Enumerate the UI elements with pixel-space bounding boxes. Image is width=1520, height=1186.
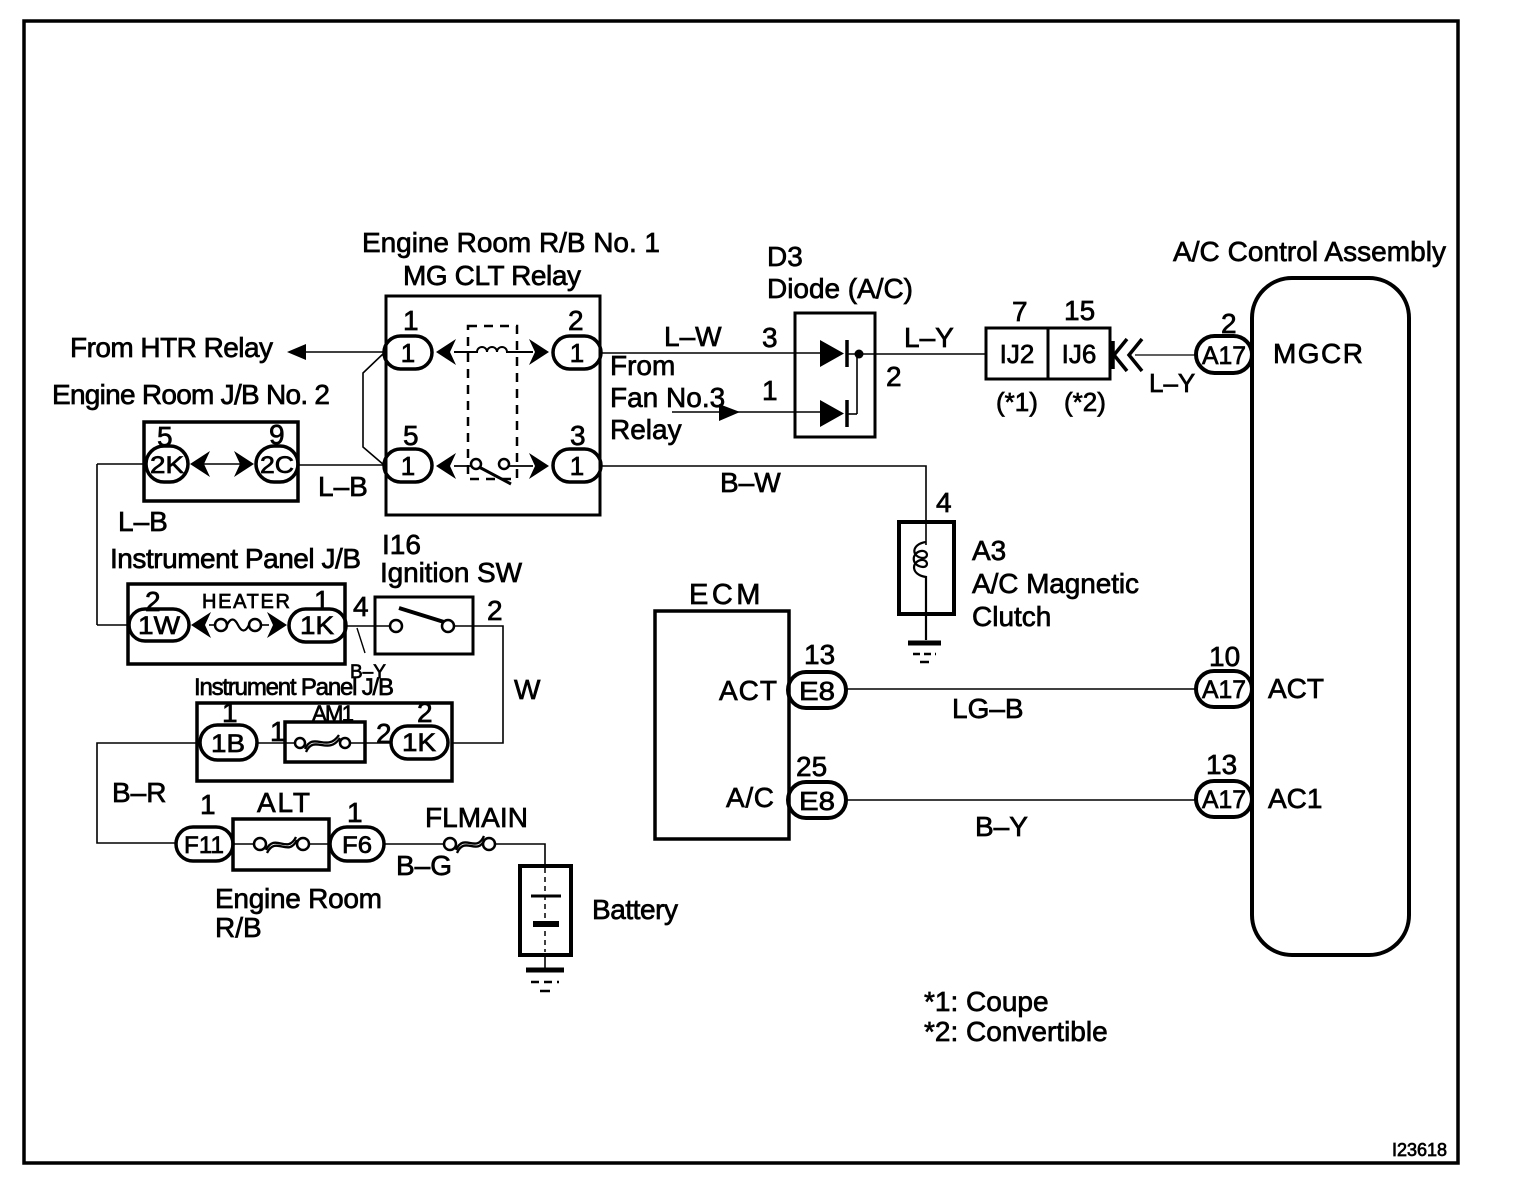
svg-text:MG CLT Relay: MG CLT Relay <box>403 260 581 291</box>
svg-text:7: 7 <box>1012 296 1028 327</box>
svg-text:MGCR: MGCR <box>1273 338 1363 369</box>
relay coil <box>454 347 533 352</box>
svg-text:4: 4 <box>353 591 369 622</box>
svg-text:13: 13 <box>1206 749 1237 780</box>
svg-text:Engine Room R/B No. 1: Engine Room R/B No. 1 <box>362 227 660 258</box>
svg-text:From: From <box>610 350 675 381</box>
svg-text:1: 1 <box>570 451 584 481</box>
svg-text:A17: A17 <box>1202 342 1246 370</box>
leader line to B-Y <box>357 628 365 653</box>
svg-text:*1: Coupe: *1: Coupe <box>924 986 1049 1017</box>
svg-text:F6: F6 <box>342 832 372 859</box>
svg-text:Relay: Relay <box>610 414 682 445</box>
svg-text:Ignition SW: Ignition SW <box>380 557 523 588</box>
svg-text:2: 2 <box>487 595 503 626</box>
junction box Engine Room J/B No.2 <box>144 422 298 501</box>
svg-text:LG–B: LG–B <box>952 693 1024 724</box>
wire L-Y diode to IJ2 <box>875 353 986 355</box>
svg-text:I16: I16 <box>382 529 421 560</box>
inline connector chevrons <box>1113 339 1142 371</box>
svg-text:D3: D3 <box>767 241 803 272</box>
svg-text:1: 1 <box>403 305 419 336</box>
svg-text:E8: E8 <box>799 676 835 706</box>
wire B-W relay pin3 to A3 <box>601 466 926 545</box>
junction box Instrument Panel J/B 2 <box>197 703 452 781</box>
svg-text:1: 1 <box>401 451 415 481</box>
svg-text:A17: A17 <box>1202 676 1246 704</box>
svg-text:L–Y: L–Y <box>904 322 954 353</box>
wire LG-B from E8 to A17 <box>846 688 1196 690</box>
svg-text:5: 5 <box>403 420 419 451</box>
svg-text:L–B: L–B <box>318 471 368 502</box>
svg-text:2K: 2K <box>150 452 184 479</box>
wire to HTR relay with arrow <box>287 344 384 360</box>
wire chevron to A17 <box>1135 354 1196 356</box>
ignition switch contacts <box>390 608 473 632</box>
svg-text:Diode (A/C): Diode (A/C) <box>767 273 913 304</box>
svg-text:1: 1 <box>401 338 415 368</box>
connector F6 oval <box>330 827 384 861</box>
svg-text:HEATER: HEATER <box>202 591 290 613</box>
arrowhead into 1K <box>267 612 287 638</box>
A3 coil <box>914 542 927 640</box>
svg-text:2: 2 <box>886 361 902 392</box>
svg-text:1B: 1B <box>211 730 245 758</box>
diode element top <box>820 340 875 367</box>
ground below battery <box>526 970 564 991</box>
svg-text:A/C: A/C <box>726 782 774 813</box>
wire L-B vertical <box>96 464 98 625</box>
connector E8 oval A/C <box>788 782 846 818</box>
arrowhead into 2K <box>190 451 210 477</box>
fuse AM1 element <box>295 735 391 752</box>
wire bracket joining relay pin1 and pin5 <box>363 353 384 465</box>
svg-text:*2: Convertible: *2: Convertible <box>924 1016 1108 1047</box>
svg-text:Fan No.3: Fan No.3 <box>610 382 725 413</box>
ignition switch box I16 <box>375 597 473 654</box>
wire W from ignition to 1K <box>452 626 503 743</box>
svg-text:B–G: B–G <box>396 850 452 881</box>
connector A17 oval ACT <box>1196 671 1252 707</box>
svg-text:Instrument Panel J/B: Instrument Panel J/B <box>110 543 361 574</box>
svg-text:Engine Room: Engine Room <box>215 883 382 914</box>
arrowhead into pin1 oval <box>436 339 456 365</box>
relay pin 1 oval <box>384 336 432 369</box>
svg-text:1: 1 <box>570 338 584 368</box>
relay box Engine Room R/B No.1 <box>386 296 600 515</box>
svg-text:A/C Control Assembly: A/C Control Assembly <box>1173 236 1446 267</box>
svg-text:(*2): (*2) <box>1064 387 1106 417</box>
svg-text:2C: 2C <box>260 452 294 479</box>
svg-text:Battery: Battery <box>592 894 678 925</box>
junction connector IJ2 IJ6 box <box>986 328 1110 379</box>
A/C control assembly box <box>1252 278 1409 955</box>
svg-text:W: W <box>514 674 541 705</box>
wire L-W relay pin2 to diode <box>601 352 820 354</box>
svg-text:L–Y: L–Y <box>1149 368 1195 398</box>
connector 2K oval <box>146 446 188 482</box>
svg-text:2: 2 <box>376 718 392 749</box>
wire 1B to AM1 <box>257 742 295 744</box>
svg-text:2: 2 <box>568 305 584 336</box>
relay coil dashed enclosure <box>468 326 517 479</box>
relay pin 3 oval <box>553 449 601 482</box>
svg-text:A/C Magnetic: A/C Magnetic <box>972 568 1139 599</box>
svg-text:From HTR Relay: From HTR Relay <box>70 332 273 363</box>
arrowhead into pin5 oval <box>436 453 456 479</box>
svg-text:ACT: ACT <box>719 675 777 706</box>
svg-text:2: 2 <box>417 697 433 728</box>
svg-text:1K: 1K <box>402 729 436 757</box>
svg-text:IJ6: IJ6 <box>1062 339 1097 369</box>
wire 2K to left vertical <box>97 463 146 465</box>
svg-text:ECM: ECM <box>689 579 764 611</box>
svg-text:1: 1 <box>762 375 778 406</box>
svg-text:15: 15 <box>1064 295 1095 326</box>
svg-text:IJ2: IJ2 <box>1000 339 1035 369</box>
svg-text:13: 13 <box>804 639 835 670</box>
wire 1K to ignition switch <box>346 625 390 627</box>
wire 1B to left vertical B-R <box>97 743 200 843</box>
svg-text:1: 1 <box>347 797 363 828</box>
svg-text:E8: E8 <box>799 786 835 816</box>
ground below A3 <box>908 643 941 662</box>
connector A17 oval AC1 <box>1196 781 1252 817</box>
wire F6 to FLMAIN fusible link <box>384 843 444 845</box>
svg-text:1K: 1K <box>300 612 334 640</box>
svg-text:B–R: B–R <box>112 777 166 808</box>
battery box <box>520 866 571 955</box>
diode element bottom <box>820 354 857 427</box>
connector A17 oval MGCR <box>1196 336 1252 373</box>
svg-text:F11: F11 <box>184 832 224 859</box>
connector E8 oval ACT <box>788 672 846 708</box>
junction box Instrument Panel J/B <box>128 584 345 664</box>
wire 2C to relay pin5, L-B <box>298 464 384 466</box>
svg-text:25: 25 <box>796 751 827 782</box>
arrowhead into pin3 oval <box>529 453 549 479</box>
connector F11 oval <box>176 827 233 861</box>
wire FLMAIN to battery <box>495 844 545 866</box>
svg-text:3: 3 <box>762 322 778 353</box>
svg-text:3: 3 <box>570 420 586 451</box>
wire B-Y from E8 to A17 <box>846 799 1196 801</box>
svg-text:FLMAIN: FLMAIN <box>425 802 528 833</box>
svg-text:I23618: I23618 <box>1392 1140 1447 1160</box>
fusible link FLMAIN <box>444 836 495 853</box>
svg-text:B–Y: B–Y <box>975 811 1028 842</box>
wire battery to ground <box>544 955 546 969</box>
svg-text:10: 10 <box>1209 641 1240 672</box>
svg-text:A17: A17 <box>1202 786 1246 814</box>
junction dot <box>855 350 864 359</box>
arrowhead into 1W <box>191 612 211 638</box>
svg-text:1: 1 <box>200 789 216 820</box>
svg-text:(*1): (*1) <box>996 387 1038 417</box>
svg-text:L–W: L–W <box>664 321 722 352</box>
svg-text:ACT: ACT <box>1268 673 1324 704</box>
svg-text:AC1: AC1 <box>1268 783 1322 814</box>
A3 magnetic clutch box <box>899 522 954 614</box>
connector 1K oval 2 <box>391 726 448 759</box>
relay switch <box>454 459 533 484</box>
svg-text:1W: 1W <box>138 612 180 640</box>
relay pin 2 oval <box>553 336 601 369</box>
svg-text:B–W: B–W <box>720 467 781 498</box>
battery cell symbol <box>531 868 561 952</box>
fuse box AM1 <box>285 722 365 762</box>
svg-text:ALT: ALT <box>257 787 310 818</box>
label From Fan No.3 Relay <box>610 350 725 445</box>
arrowhead into pin2 oval <box>529 339 549 365</box>
fuse ALT element <box>233 837 330 853</box>
svg-text:L–B: L–B <box>118 506 168 537</box>
wire between arrows inside J/B No.2 <box>203 463 241 465</box>
svg-text:4: 4 <box>936 487 952 518</box>
heater fuse element <box>209 619 269 631</box>
connector 1W oval <box>129 609 189 641</box>
svg-text:Engine Room J/B No. 2: Engine Room J/B No. 2 <box>52 379 330 410</box>
svg-text:Clutch: Clutch <box>972 601 1051 632</box>
fuse box ALT <box>233 819 329 870</box>
svg-text:R/B: R/B <box>215 912 262 943</box>
connector 1B oval <box>200 725 257 760</box>
wire from Fan No.3 relay with arrow <box>672 404 820 421</box>
svg-text:A3: A3 <box>972 535 1006 566</box>
connector 1K oval <box>289 609 346 642</box>
diode box D3 <box>795 313 875 437</box>
connector 2C oval <box>256 446 298 482</box>
arrowhead into 2C <box>234 451 254 477</box>
wire to 1W <box>97 624 129 626</box>
ECM box <box>655 611 789 839</box>
relay pin 5 oval <box>384 449 432 482</box>
